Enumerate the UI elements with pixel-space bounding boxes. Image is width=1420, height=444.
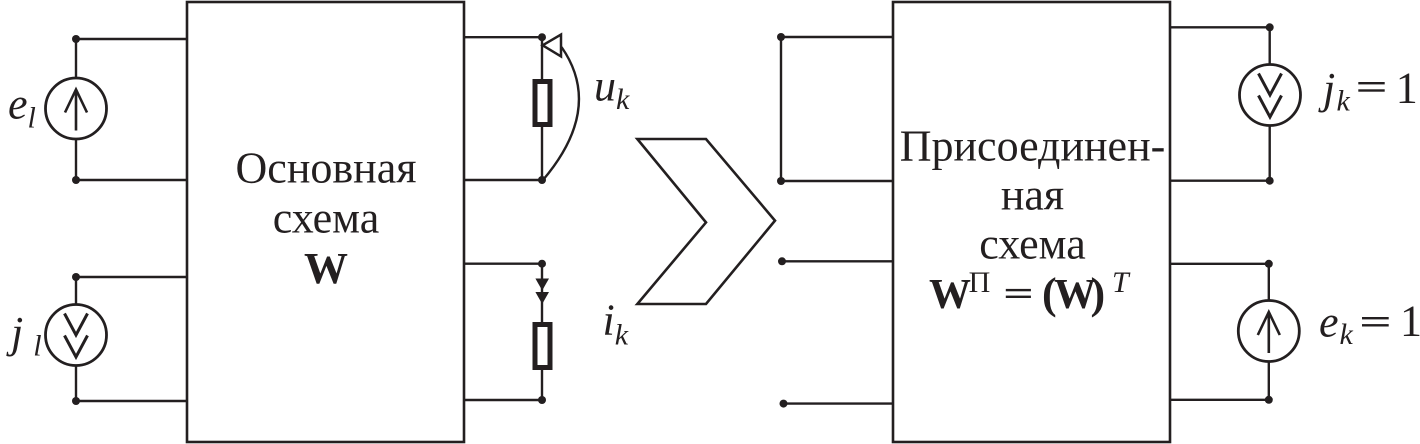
resistor u_k branch: [535, 82, 550, 125]
wire e_l bottom vertical: [75, 139, 77, 181]
wire j_k top horizontal: [1170, 26, 1270, 28]
wire e_l top vertical: [75, 39, 77, 79]
wire u_k lower vertical: [541, 125, 543, 180]
resistor i_k branch: [535, 325, 550, 368]
svg-text:схема: схема: [979, 219, 1085, 268]
node j_k top: [1266, 23, 1274, 31]
wire adjoint port3 stub: [782, 260, 893, 262]
svg-text:Основная: Основная: [236, 144, 417, 193]
wire i_k lower vertical: [541, 368, 543, 400]
wire i_k top stub: [464, 263, 542, 265]
equals sign of label e_k: [1362, 317, 1389, 327]
current source j_l: [46, 305, 107, 366]
current arrowheads i_k: [535, 279, 549, 305]
node e_l top: [72, 35, 80, 43]
wire e_l top horizontal: [76, 38, 187, 40]
wire j_l bottom horizontal: [76, 400, 187, 402]
wire e_k top vertical: [1268, 264, 1270, 301]
node adjoint port1: [777, 33, 785, 41]
node j_l top: [72, 273, 80, 281]
wire j_k top vertical: [1268, 27, 1270, 65]
node u_k bottom: [538, 176, 546, 184]
wire adjoint port4 stub: [784, 402, 894, 404]
wire j_l top horizontal: [76, 276, 187, 278]
arrowhead u_k: [543, 35, 561, 57]
node adjoint port3: [778, 257, 786, 265]
wire adjoint port1-port2 vertical: [780, 37, 782, 181]
wire i_k bottom stub: [464, 399, 542, 401]
node i_k bottom: [538, 396, 546, 404]
svg-text:схема: схема: [273, 194, 379, 243]
node e_k top: [1265, 260, 1273, 268]
node e_k bottom: [1265, 396, 1273, 404]
svg-text:WП(W)T: WП(W)T: [929, 266, 1131, 318]
node u_k top: [538, 33, 546, 41]
wire i_k upper vertical: [541, 264, 543, 324]
voltage source e_k: [1238, 301, 1299, 362]
node j_l bottom: [72, 397, 80, 405]
node e_l bottom: [72, 176, 80, 184]
adjoint circuit box WT: [893, 2, 1170, 442]
svg-text:ная: ная: [1001, 171, 1064, 220]
svg-text:W: W: [304, 244, 348, 293]
wire adjoint port1 stub: [781, 36, 893, 38]
wire j_k bottom vertical: [1268, 126, 1270, 181]
svg-text:ek1: ek1: [1319, 297, 1420, 352]
node j_k bottom: [1266, 177, 1274, 185]
node adjoint port2: [777, 177, 785, 185]
voltage arc u_k: [543, 47, 579, 180]
wire e_k bottom vertical: [1268, 361, 1270, 400]
wire e_k top horizontal: [1170, 263, 1269, 265]
wire e_l bottom horizontal: [76, 179, 187, 181]
wire u_k bottom stub: [464, 179, 542, 181]
wire u_k upper vertical: [541, 37, 543, 81]
wire e_k bottom horizontal: [1170, 399, 1269, 401]
svg-text:el: el: [8, 80, 36, 135]
equals sign of label j_k: [1358, 82, 1384, 92]
transform chevron symbol: [637, 139, 775, 304]
main circuit box W: [187, 2, 464, 442]
svg-text:jl: jl: [6, 308, 42, 363]
node i_k top: [538, 260, 546, 268]
svg-text:ik: ik: [603, 296, 629, 352]
wire j_l bottom vertical: [75, 366, 77, 402]
wire j_k bottom horizontal: [1170, 179, 1270, 181]
voltage source e_l: [46, 78, 107, 139]
node adjoint port4: [780, 400, 788, 408]
svg-text:Присоединен-: Присоединен-: [900, 122, 1166, 171]
equals sign of adjoint box line 4: [1006, 289, 1031, 298]
wire j_l top vertical: [75, 277, 77, 305]
wire adjoint port2 stub: [781, 180, 893, 182]
svg-text:uk: uk: [594, 61, 630, 116]
current source j_k: [1240, 65, 1301, 126]
wire u_k top stub: [464, 36, 542, 38]
